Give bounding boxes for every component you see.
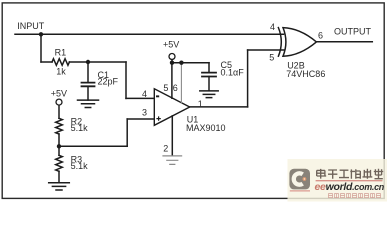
wire into pin 4	[126, 97, 154, 99]
op-amp U1 triangle	[154, 89, 189, 126]
wire R1 left lead	[41, 61, 52, 63]
svg-text:+5V: +5V	[163, 39, 179, 49]
wire C1 bottom stub	[87, 86, 89, 100]
wire supply rail to C5	[172, 62, 209, 64]
junction dot input	[39, 32, 43, 36]
svg-text:22pF: 22pF	[98, 77, 119, 87]
wire R1 right lead to corner	[69, 61, 126, 63]
ground below C1	[78, 100, 99, 107]
op-amp minus marker	[156, 95, 159, 97]
svg-text:4: 4	[270, 22, 275, 32]
wire +5V stub U1	[171, 60, 173, 63]
logo icon C	[294, 173, 303, 184]
logo red underline	[316, 180, 383, 182]
svg-text:74VHC86: 74VHC86	[286, 69, 325, 79]
logo icon square	[289, 169, 310, 190]
junction dot R1/C1	[86, 60, 90, 64]
logo icon dot	[303, 177, 307, 181]
wire down to pin4	[125, 62, 127, 98]
resistor R1	[52, 59, 69, 66]
wire pin 6	[180, 63, 182, 103]
svg-text:6: 6	[318, 30, 323, 40]
svg-text:5: 5	[163, 83, 168, 93]
svg-text:eeworld.com.cn: eeworld.com.cn	[315, 181, 385, 193]
svg-text:+5V: +5V	[51, 89, 67, 99]
+5V terminal circle U1	[169, 54, 175, 60]
svg-text:6: 6	[173, 83, 178, 93]
wire pin 5	[171, 63, 173, 98]
wire INPUT net horizontal	[15, 33, 284, 35]
wire R2 to junction	[58, 134, 60, 146]
wire input to R1 vertical	[40, 34, 42, 62]
wire junction to R3	[58, 146, 60, 155]
wire OUTPUT	[316, 41, 372, 43]
junction dot pin6	[179, 61, 183, 65]
svg-text:0.1αF: 0.1αF	[221, 68, 245, 78]
ground below R3	[49, 183, 70, 190]
wire output up	[247, 50, 249, 107]
svg-text:2: 2	[163, 144, 168, 154]
svg-text:1: 1	[198, 99, 203, 109]
logo icon red underline	[290, 190, 310, 192]
svg-text:1k: 1k	[56, 67, 66, 77]
capacitor C1	[82, 83, 95, 87]
wire up to pin3	[126, 119, 128, 146]
junction dot +5V pin5	[170, 61, 174, 65]
+5V terminal circle left	[56, 99, 62, 105]
logo slogan tiny red characters	[329, 194, 381, 198]
junction dot R2/R3	[57, 144, 61, 148]
wire R3 to ground	[58, 171, 60, 182]
xor gate U2B body	[283, 28, 316, 57]
svg-text:5: 5	[269, 52, 274, 62]
svg-text:R1: R1	[55, 47, 67, 57]
resistor R2	[56, 118, 63, 134]
resistor R3	[56, 155, 63, 171]
ground below C5	[200, 91, 218, 98]
svg-text:INPUT: INPUT	[17, 21, 45, 31]
wire C5 bottom stub	[208, 77, 210, 91]
wire C5 top stub	[208, 63, 210, 73]
wire junction to corner	[59, 145, 127, 147]
svg-text:MAX9010: MAX9010	[186, 123, 226, 133]
svg-text:5.1k: 5.1k	[71, 161, 89, 171]
wire U1 output	[190, 106, 248, 108]
ground below pin 2	[163, 156, 182, 165]
eeworld watermark background	[288, 159, 387, 202]
svg-text:4: 4	[142, 89, 147, 99]
wire C1 top stub	[87, 62, 89, 83]
op-amp plus marker	[156, 116, 160, 120]
wire into pin 3	[127, 118, 154, 120]
xor gate U2B extra input arc	[278, 28, 281, 57]
svg-text:3: 3	[142, 108, 147, 118]
logo chinese title 电子工程世界 (fake strokes)	[317, 169, 384, 179]
svg-text:OUTPUT: OUTPUT	[334, 26, 372, 36]
svg-text:5.1k: 5.1k	[71, 123, 89, 133]
wire pin 2	[171, 116, 173, 155]
wire into XOR pin 5	[248, 49, 284, 51]
wire +5V to R2	[58, 105, 60, 118]
capacitor C5	[202, 73, 216, 77]
